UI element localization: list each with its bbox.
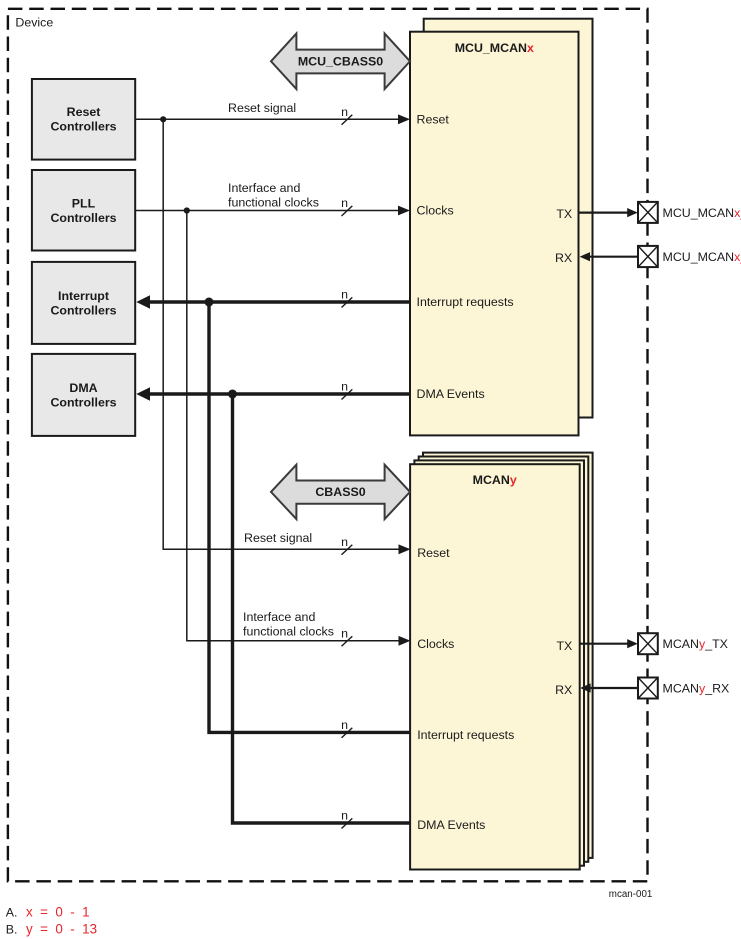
svg-text:RX: RX [555,251,572,265]
svg-text:n: n [341,626,348,640]
svg-text:Reset: Reset [417,546,450,560]
svg-text:n: n [341,196,348,210]
svg-text:Interrupt requests: Interrupt requests [417,728,514,742]
svg-text:n: n [341,535,348,549]
svg-text:MCU_CBASS0: MCU_CBASS0 [298,55,383,69]
svg-text:n: n [341,288,348,302]
svg-text:CBASS0: CBASS0 [315,485,365,499]
svg-text:n: n [341,380,348,394]
svg-text:Clocks: Clocks [417,204,454,218]
svg-text:A.: A. [6,906,18,920]
svg-text:DMA Events: DMA Events [417,387,485,401]
svg-text:x = 0 - 1: x = 0 - 1 [26,905,90,920]
svg-text:RX: RX [555,683,572,697]
svg-text:DMA Events: DMA Events [417,818,485,832]
svg-text:Reset signal: Reset signal [244,531,312,545]
svg-text:Controllers: Controllers [50,396,116,410]
svg-text:PLL: PLL [72,196,96,210]
svg-text:Interface and: Interface and [228,181,300,195]
svg-text:MCANy_RX: MCANy_RX [663,682,730,696]
svg-text:Interface and: Interface and [243,610,315,624]
svg-text:MCANy: MCANy [473,473,517,487]
svg-text:functional clocks: functional clocks [228,195,319,209]
svg-text:Controllers: Controllers [50,211,116,225]
svg-text:n: n [341,105,348,119]
svg-text:Controllers: Controllers [50,120,116,134]
svg-text:Controllers: Controllers [50,304,116,318]
svg-text:TX: TX [556,207,572,221]
svg-text:Reset: Reset [67,105,101,119]
svg-text:B.: B. [6,923,18,937]
svg-text:functional clocks: functional clocks [243,625,334,639]
svg-text:DMA: DMA [69,381,97,395]
svg-text:MCU_MCANx_RX: MCU_MCANx_RX [663,250,741,264]
svg-text:MCU_MCANx: MCU_MCANx [455,41,534,55]
svg-text:n: n [341,718,348,732]
svg-text:MCANy_TX: MCANy_TX [663,637,728,651]
svg-text:Clocks: Clocks [417,637,454,651]
svg-text:Reset signal: Reset signal [228,101,296,115]
svg-text:mcan-001: mcan-001 [609,889,653,900]
svg-text:Interrupt requests: Interrupt requests [417,295,514,309]
svg-text:Interrupt: Interrupt [58,289,109,303]
svg-text:MCU_MCANx_TX: MCU_MCANx_TX [663,206,741,220]
svg-text:n: n [341,809,348,823]
svg-text:Device: Device [15,15,53,29]
svg-text:TX: TX [556,639,572,653]
svg-text:y = 0 - 13: y = 0 - 13 [26,922,97,937]
svg-text:Reset: Reset [417,113,450,127]
